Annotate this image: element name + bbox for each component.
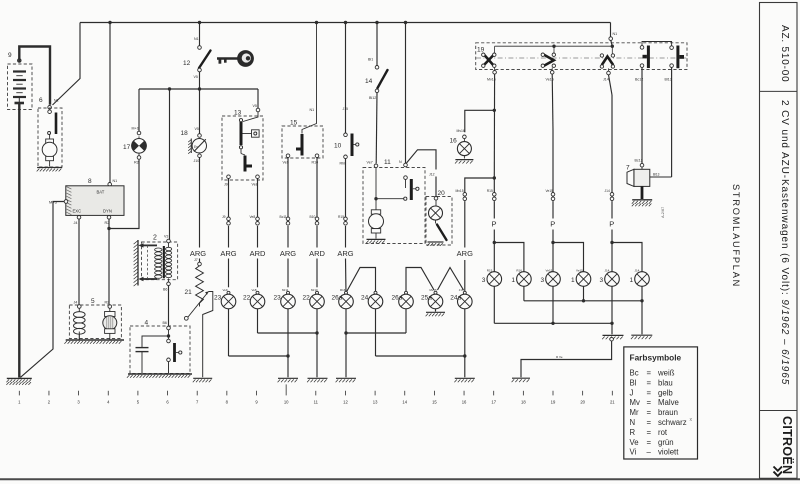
svg-text:Ve9: Ve9 bbox=[223, 288, 228, 292]
svg-text:ARD: ARD bbox=[309, 249, 325, 258]
svg-text:J15: J15 bbox=[343, 107, 349, 111]
wire RVe to ground bbox=[521, 341, 612, 377]
svg-text:R15: R15 bbox=[487, 269, 493, 273]
svg-text:9: 9 bbox=[255, 400, 258, 405]
svg-text:M+S: M+S bbox=[132, 127, 140, 131]
condenser and breaker 4 bbox=[130, 320, 190, 374]
wire Ve15 lamp pair bbox=[553, 243, 584, 272]
wire switch 10 down bbox=[345, 159, 347, 217]
wire 15 R10 down bbox=[316, 158, 318, 217]
node 464 return bbox=[463, 354, 466, 357]
dynamo 5 bbox=[69, 298, 121, 340]
svg-text:ARG: ARG bbox=[457, 249, 473, 258]
brake switch 10 bbox=[334, 133, 359, 166]
svg-text:ARG: ARG bbox=[190, 249, 206, 258]
wire lamp23 return bbox=[229, 309, 289, 356]
node return 612 bbox=[610, 322, 613, 325]
svg-text:19: 19 bbox=[477, 47, 485, 54]
svg-text:Ve15: Ve15 bbox=[576, 269, 583, 273]
svg-text:A-2/67: A-2/67 bbox=[661, 207, 665, 218]
svg-text:J14: J14 bbox=[603, 78, 609, 82]
svg-text:Ve8: Ve8 bbox=[252, 288, 257, 292]
ground right headlamp bbox=[631, 335, 652, 339]
wire J14 to lamps bbox=[611, 201, 613, 242]
lamp 22 at 317 bbox=[303, 288, 325, 309]
svg-text:schwarz: schwarz bbox=[658, 418, 687, 427]
wire Mv16 main bbox=[493, 74, 495, 176]
lamp 1 J14 bbox=[630, 269, 650, 287]
horn 7 bbox=[626, 159, 672, 200]
wire bus to regulator 8 bbox=[109, 23, 111, 183]
node bus-sw12 bbox=[198, 21, 201, 24]
lighting relay 13 bbox=[222, 104, 263, 187]
wire 15 Ve9 down bbox=[287, 158, 289, 217]
svg-text:=: = bbox=[647, 398, 652, 407]
wire Bc11 to lamp 23b bbox=[287, 226, 289, 287]
wire Mv15 to lamp 24a bbox=[464, 201, 466, 294]
node 288 return bbox=[286, 354, 289, 357]
svg-text:1: 1 bbox=[571, 277, 575, 284]
svg-text:J7: J7 bbox=[194, 258, 198, 262]
wire bridge 25a-24a bbox=[438, 268, 464, 291]
svg-text:Mv16: Mv16 bbox=[457, 129, 465, 133]
ground 288 bbox=[278, 378, 298, 382]
svg-text:ARG: ARG bbox=[337, 249, 353, 258]
svg-text:21: 21 bbox=[185, 289, 193, 296]
wire Bc12 to horn bbox=[641, 67, 643, 163]
node return 583 bbox=[582, 299, 585, 302]
lamp 25a at 435 bbox=[421, 288, 443, 309]
wire bridge 26a-24 bbox=[347, 268, 376, 292]
svg-text:=: = bbox=[647, 418, 652, 427]
svg-text:Bc12: Bc12 bbox=[635, 159, 643, 163]
wire bridge 26a-25a bbox=[406, 268, 434, 292]
wire starter N1 diagonal to bus bbox=[53, 23, 81, 106]
wire V5 distribution row bbox=[139, 89, 258, 131]
lamp 23 at 288 bbox=[274, 288, 296, 309]
svg-text:15: 15 bbox=[290, 120, 298, 127]
node bus-sw14 bbox=[375, 21, 378, 24]
flasher 17 bbox=[123, 127, 147, 165]
node bus-sw10 bbox=[344, 21, 347, 24]
ground 346 bbox=[336, 378, 356, 382]
svg-text:10: 10 bbox=[284, 400, 289, 405]
svg-text:N1: N1 bbox=[310, 108, 315, 112]
bottom reference scale 1-21 bbox=[18, 384, 615, 404]
switch 15 bbox=[282, 23, 323, 165]
wire branch to lamp 16 bbox=[465, 110, 495, 132]
svg-text:7: 7 bbox=[196, 400, 199, 405]
svg-text:12: 12 bbox=[183, 60, 191, 67]
ignition switch 12 bbox=[183, 23, 211, 90]
node Ve15 lamp branch bbox=[551, 241, 554, 244]
svg-text:STROMLAUFPLAN: STROMLAUFPLAN bbox=[731, 184, 741, 288]
svg-text:BAT: BAT bbox=[97, 189, 105, 194]
wire J14 main bbox=[609, 75, 613, 178]
wire right lamp returns lower bbox=[494, 286, 612, 323]
svg-text:Bl13: Bl13 bbox=[653, 173, 660, 177]
svg-text:V3: V3 bbox=[164, 235, 168, 239]
svg-text:weiß: weiß bbox=[657, 369, 675, 378]
svg-text:15: 15 bbox=[432, 400, 437, 405]
svg-text:Ve8: Ve8 bbox=[250, 215, 256, 219]
svg-text:Farbsymbole: Farbsymbole bbox=[630, 353, 682, 363]
svg-text:18: 18 bbox=[521, 400, 526, 405]
svg-text:19: 19 bbox=[551, 400, 556, 405]
wire Ve15 column bbox=[552, 178, 554, 192]
wire R15 to lamps bbox=[493, 201, 495, 242]
lamp 24 at 375 bbox=[361, 291, 383, 309]
svg-text:8: 8 bbox=[88, 178, 92, 185]
ground starter 6 bbox=[37, 168, 62, 172]
svg-text:9: 9 bbox=[8, 52, 12, 59]
ground lamp 25a bbox=[426, 312, 445, 316]
node bus-reg8 bbox=[108, 21, 111, 24]
connector below ground bbox=[610, 337, 614, 341]
svg-text:V5: V5 bbox=[253, 104, 257, 108]
wire B10 to lamp 22b bbox=[316, 226, 318, 287]
svg-text:2: 2 bbox=[48, 400, 51, 405]
ground condenser 4 bbox=[127, 374, 192, 378]
wire regulator M+3 to ground bbox=[21, 202, 65, 378]
svg-text:=: = bbox=[647, 388, 652, 397]
svg-text:braun: braun bbox=[658, 408, 678, 417]
svg-text:1: 1 bbox=[511, 277, 515, 284]
svg-text:J14: J14 bbox=[605, 189, 610, 193]
wire right lamp returns upper bbox=[524, 286, 642, 301]
svg-text:3: 3 bbox=[77, 400, 80, 405]
wire Ve8 to lamp 22 bbox=[257, 226, 259, 287]
svg-text:V5: V5 bbox=[195, 127, 199, 131]
svg-text:J9: J9 bbox=[224, 183, 228, 187]
svg-text:Mr11: Mr11 bbox=[282, 288, 289, 292]
wire 11 to lamp 20 bbox=[407, 150, 437, 197]
svg-text:R16: R16 bbox=[516, 269, 522, 273]
node V5-key bbox=[198, 87, 201, 90]
svg-text:Mv15: Mv15 bbox=[456, 189, 464, 193]
wire Ve15 to lamps bbox=[552, 201, 554, 242]
svg-text:Mr10: Mr10 bbox=[311, 288, 318, 292]
lamp 23 at 228 bbox=[214, 288, 236, 309]
svg-text:Ve8: Ve8 bbox=[252, 183, 258, 187]
svg-text:EXC: EXC bbox=[73, 209, 82, 214]
svg-text:Vi: Vi bbox=[630, 448, 637, 457]
svg-text:6: 6 bbox=[166, 400, 169, 405]
node 19 internal N bbox=[611, 45, 614, 48]
svg-text:Malve: Malve bbox=[658, 398, 679, 407]
node bus-sw15 bbox=[315, 21, 318, 24]
svg-text:1: 1 bbox=[630, 277, 634, 284]
title block frame bbox=[760, 3, 798, 479]
svg-text:=: = bbox=[647, 408, 652, 417]
svg-text:N1: N1 bbox=[613, 32, 618, 36]
svg-text:ARD: ARD bbox=[250, 249, 266, 258]
wire lamp24 return bbox=[376, 309, 465, 356]
citroen chevrons bbox=[774, 467, 783, 476]
connector Ve8 bbox=[250, 215, 260, 225]
svg-text:N: N bbox=[399, 160, 402, 164]
lamp 26a at 406 bbox=[392, 291, 414, 309]
svg-text:Mv: Mv bbox=[630, 398, 640, 407]
node Mv15 branch bbox=[493, 176, 496, 179]
svg-text:R15: R15 bbox=[338, 215, 344, 219]
node 346 return bbox=[344, 331, 347, 334]
svg-text:26a: 26a bbox=[392, 295, 403, 302]
svg-text:1: 1 bbox=[18, 400, 21, 405]
lamp 3 J14 bbox=[600, 269, 620, 287]
wire bus to 11 N bbox=[405, 23, 407, 164]
ground horn bbox=[632, 200, 652, 207]
wire DYN to dynamo R2 bbox=[108, 219, 110, 305]
svg-text:Bc11: Bc11 bbox=[280, 215, 287, 219]
node 317 return bbox=[315, 331, 318, 334]
svg-text:13: 13 bbox=[373, 400, 378, 405]
svg-text:24a: 24a bbox=[450, 295, 461, 302]
instrument lamp 20 bbox=[426, 190, 452, 245]
svg-text:14: 14 bbox=[365, 78, 373, 85]
svg-text:Bl12: Bl12 bbox=[369, 96, 376, 100]
voltage regulator 8 bbox=[49, 178, 124, 225]
node return 642 bbox=[640, 299, 643, 302]
bottom border line bbox=[0, 478, 800, 480]
svg-text:16: 16 bbox=[450, 138, 458, 145]
svg-text:violett: violett bbox=[658, 448, 679, 457]
stop switch 14 bbox=[365, 66, 388, 101]
wire to lamp 26a-left bbox=[345, 226, 348, 294]
svg-text:Mr: Mr bbox=[630, 408, 639, 417]
svg-text:21: 21 bbox=[610, 400, 615, 405]
svg-text:Ve: Ve bbox=[630, 438, 639, 447]
svg-text:J10: J10 bbox=[194, 159, 200, 163]
svg-text:J: J bbox=[630, 388, 634, 397]
lamp 22 at 257 bbox=[243, 288, 265, 309]
svg-text:–: – bbox=[647, 448, 652, 457]
wire top bus N1 bbox=[80, 22, 611, 24]
ground 464 bbox=[454, 378, 474, 382]
svg-text:P: P bbox=[550, 220, 555, 229]
svg-text:N1: N1 bbox=[194, 37, 199, 41]
svg-text:R15: R15 bbox=[487, 189, 493, 193]
ignition coil 2 bbox=[134, 235, 178, 292]
wire flasher R2 branch bbox=[109, 160, 139, 229]
node DYN-R2 branch bbox=[107, 227, 110, 230]
svg-text:2: 2 bbox=[153, 235, 157, 242]
connector R15m bbox=[338, 215, 347, 225]
svg-text:Ve7: Ve7 bbox=[367, 161, 373, 165]
svg-text:13: 13 bbox=[234, 110, 242, 117]
svg-text:7: 7 bbox=[626, 165, 630, 172]
lamp 3 Ve15 bbox=[541, 269, 561, 287]
wire 14 to wiper 11 bbox=[375, 93, 378, 164]
pilot lamp 16 bbox=[450, 129, 472, 159]
svg-text:J9: J9 bbox=[222, 215, 226, 219]
svg-text:P: P bbox=[492, 220, 497, 229]
rheostat 21 panel light dimmer bbox=[184, 258, 212, 377]
svg-text:J14: J14 bbox=[605, 269, 610, 273]
svg-text:Bl1: Bl1 bbox=[368, 58, 373, 62]
legend Farbsymbole bbox=[624, 347, 698, 459]
node 19 internal Ve bbox=[552, 45, 555, 48]
node V5-coil bbox=[168, 87, 171, 90]
svg-text:22: 22 bbox=[303, 295, 311, 302]
wiper motor 11 bbox=[363, 159, 425, 244]
lamp 24a at 464 bbox=[450, 288, 472, 309]
ground dynamo 5 bbox=[64, 340, 124, 344]
svg-text:17: 17 bbox=[491, 400, 496, 405]
starter motor 6 bbox=[38, 97, 62, 167]
wire J14 lamp pair bbox=[612, 243, 642, 272]
lamp 1 R16 bbox=[511, 269, 531, 287]
ground left headlamp bbox=[602, 335, 623, 339]
svg-text:R16: R16 bbox=[340, 288, 346, 292]
wire R15 column bbox=[493, 178, 495, 192]
wire J9 to lamp 23 bbox=[228, 226, 230, 287]
svg-text:B6: B6 bbox=[163, 288, 167, 292]
node bus-11 bbox=[404, 21, 407, 24]
ground RVe bbox=[512, 378, 530, 382]
wire bus to switch 10 bbox=[345, 23, 347, 134]
svg-text:CITROËN: CITROËN bbox=[780, 416, 795, 474]
wire bus end into 19 bbox=[609, 23, 617, 47]
connector B10 bbox=[310, 215, 319, 225]
svg-text:26a: 26a bbox=[332, 295, 343, 302]
svg-text:R2: R2 bbox=[105, 301, 110, 305]
svg-text:24: 24 bbox=[361, 295, 369, 302]
svg-text:16: 16 bbox=[462, 400, 467, 405]
svg-text:Bc: Bc bbox=[630, 369, 639, 378]
ground wiper 11 bbox=[366, 239, 385, 243]
wire branch Mv15 bbox=[465, 178, 495, 192]
svg-text:3: 3 bbox=[541, 277, 545, 284]
wire 642 to ground bbox=[641, 301, 643, 335]
connector J14 bbox=[605, 189, 614, 201]
svg-text:N1: N1 bbox=[113, 179, 118, 183]
svg-text:AZ. 510-00: AZ. 510-00 bbox=[779, 25, 790, 82]
wire lamp26a returns bbox=[346, 309, 406, 378]
ground rheostat 21 bbox=[193, 378, 212, 382]
svg-text:blau: blau bbox=[658, 378, 673, 387]
wire coil to condenser 4 bbox=[163, 286, 169, 326]
svg-text:6: 6 bbox=[39, 97, 43, 104]
svg-text:rot: rot bbox=[658, 428, 668, 437]
svg-text:=: = bbox=[647, 369, 652, 378]
wire R15 lamp pair bbox=[494, 243, 524, 272]
wire bus to switch 14 bbox=[368, 23, 377, 66]
svg-text:3: 3 bbox=[600, 277, 604, 284]
svg-text:25a: 25a bbox=[421, 295, 432, 302]
svg-text:Bl: Bl bbox=[630, 378, 637, 387]
svg-text:=: = bbox=[647, 438, 652, 447]
svg-text:=: = bbox=[647, 428, 652, 437]
svg-text:11: 11 bbox=[384, 159, 391, 166]
wire 13 J9 down bbox=[228, 179, 230, 217]
lamp 3 R15 bbox=[482, 269, 502, 287]
svg-text:ARG: ARG bbox=[280, 249, 296, 258]
wire lamp23b to ground bbox=[287, 309, 289, 378]
svg-text:3: 3 bbox=[482, 277, 486, 284]
svg-text:23: 23 bbox=[274, 295, 282, 302]
svg-text:14: 14 bbox=[402, 400, 407, 405]
lamp 1 Ve15 bbox=[571, 269, 591, 287]
svg-text:J14: J14 bbox=[635, 269, 640, 273]
svg-text:Bl13: Bl13 bbox=[665, 78, 672, 82]
svg-text:B10: B10 bbox=[310, 215, 316, 219]
connector J9 bbox=[222, 215, 230, 225]
wire V5 to switch 13 bbox=[257, 89, 259, 108]
ignition key icon bbox=[217, 50, 254, 67]
svg-text:10: 10 bbox=[334, 143, 342, 150]
svg-text:=: = bbox=[647, 378, 652, 387]
label row ARG ARD bbox=[189, 248, 475, 259]
connector Bc11 bbox=[280, 215, 290, 225]
ground lamp 16 bbox=[455, 160, 473, 164]
svg-text:4: 4 bbox=[107, 400, 110, 405]
headlamp changeover contacts in 19 bbox=[635, 42, 684, 82]
svg-text:12: 12 bbox=[343, 400, 348, 405]
svg-text:ARG: ARG bbox=[220, 249, 236, 258]
svg-text:gelb: gelb bbox=[658, 388, 673, 397]
svg-text:J4: J4 bbox=[74, 301, 78, 305]
wire J14 column bbox=[611, 178, 613, 192]
svg-text:5: 5 bbox=[91, 298, 95, 305]
wire lamp25a stub bbox=[435, 309, 437, 312]
ground 317 bbox=[307, 378, 327, 382]
node R15 lamp branch bbox=[493, 241, 496, 244]
wire 612 to ground bbox=[611, 323, 613, 334]
connector Ve15 bbox=[546, 189, 555, 201]
wire Bl13 to horn bbox=[671, 67, 673, 177]
wire lamp22 return bbox=[258, 309, 318, 333]
ground battery bbox=[6, 378, 31, 385]
svg-text:R2: R2 bbox=[134, 161, 139, 165]
svg-text:23: 23 bbox=[214, 295, 222, 302]
svg-text:Ve15: Ve15 bbox=[546, 269, 553, 273]
ground lamp 20 bbox=[427, 242, 443, 246]
svg-text:20: 20 bbox=[580, 400, 585, 405]
wire V5 to coil 2 bbox=[169, 89, 171, 240]
svg-text:18: 18 bbox=[181, 130, 189, 137]
svg-text:P: P bbox=[609, 220, 614, 229]
svg-text:20: 20 bbox=[438, 190, 446, 197]
connector Mv15 bbox=[456, 189, 467, 201]
wire lamp22b to ground bbox=[316, 309, 318, 378]
svg-text:17: 17 bbox=[123, 144, 131, 151]
node J14 lamp branch bbox=[610, 241, 613, 244]
battery 9 bbox=[8, 52, 33, 110]
wire 13 Ve8 down bbox=[257, 179, 259, 217]
fuel gauge 18 bbox=[181, 89, 207, 248]
svg-text:11: 11 bbox=[314, 400, 319, 405]
node return 553 bbox=[551, 322, 554, 325]
svg-text:DYN: DYN bbox=[103, 209, 112, 214]
light switch 19 bbox=[476, 43, 687, 82]
svg-text:grün: grün bbox=[658, 438, 674, 447]
wire battery negative thick to ground bbox=[18, 103, 20, 378]
svg-text:R Ve: R Ve bbox=[556, 355, 563, 359]
lamp 26a at 346 bbox=[332, 288, 354, 309]
svg-text:5: 5 bbox=[137, 400, 140, 405]
wire EXC to dynamo J4 bbox=[78, 219, 80, 305]
wire battery positive thick bbox=[19, 47, 50, 105]
svg-text:Ve15: Ve15 bbox=[546, 189, 554, 193]
svg-text:V5: V5 bbox=[194, 75, 198, 79]
node Mv16 lamp16 branch bbox=[493, 109, 496, 112]
svg-text:8: 8 bbox=[226, 400, 229, 405]
svg-text:N: N bbox=[630, 418, 636, 427]
svg-text:J12: J12 bbox=[429, 173, 435, 177]
svg-text:B6: B6 bbox=[163, 321, 167, 325]
svg-text:4: 4 bbox=[145, 320, 149, 327]
